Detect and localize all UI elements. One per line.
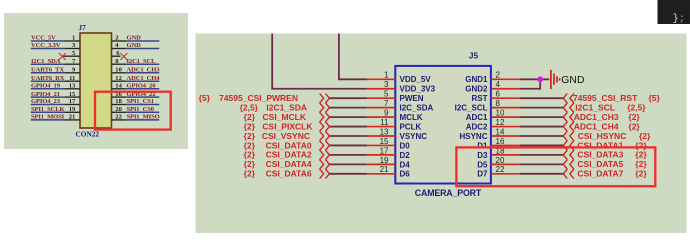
svg-text:{5}: {5} xyxy=(199,93,211,103)
svg-text:I2C1_SCL: I2C1_SCL xyxy=(127,58,157,65)
svg-text:VDD_3V3: VDD_3V3 xyxy=(400,85,436,94)
J5 pin 13 (VSYNC) xyxy=(367,127,427,141)
wire to J5 pin 18 net CSI_DATA3 xyxy=(520,154,563,156)
svg-text:SPI1_CS1: SPI1_CS1 xyxy=(127,98,154,105)
svg-text:I2C1_SDA: I2C1_SDA xyxy=(31,58,61,65)
svg-text:10: 10 xyxy=(115,67,122,74)
svg-text:8: 8 xyxy=(496,99,501,108)
svg-text:14: 14 xyxy=(115,83,122,90)
off-sheet chevron marker pin 6 xyxy=(563,94,574,103)
svg-text:GPIO4_20: GPIO4_20 xyxy=(127,83,157,90)
off-sheet chevron marker pin 16 xyxy=(563,141,574,150)
wire J7 pin 10 net ADC1_CH3 xyxy=(112,72,160,74)
wire to J5 pin 9 net CSI_MCLK xyxy=(330,116,367,118)
svg-text:GND: GND xyxy=(561,75,584,86)
svg-text:GND: GND xyxy=(127,35,142,42)
wire to J5 pin 16 net CSI_DATA1 xyxy=(520,144,563,146)
svg-text:VSYNC: VSYNC xyxy=(400,132,428,141)
off-sheet chevron marker pin 5 xyxy=(320,94,330,103)
wire to J5 pin 19 net CSI_DATA4 xyxy=(330,163,367,165)
svg-text:15: 15 xyxy=(380,137,389,146)
wire J7 pin 20 net SPI1_CS0 xyxy=(112,111,160,113)
wire to J5 pin 17 net CSI_DATA2 xyxy=(330,154,367,156)
net label ADC1_CH3 with sheet refs {2} xyxy=(574,112,641,122)
off-sheet chevron marker pin 17 xyxy=(320,150,330,159)
net label I2C1_SDA with sheet refs {2,5} xyxy=(240,102,307,112)
J5 pin 18 (D3) xyxy=(477,146,520,160)
net label CSI_DATA4 with sheet refs {2} xyxy=(244,159,312,169)
svg-text:D1: D1 xyxy=(477,141,488,150)
svg-text:D5: D5 xyxy=(477,160,488,169)
net label CSI_DATA6 with sheet refs {2} xyxy=(244,169,312,179)
svg-text:22: 22 xyxy=(496,165,505,174)
junction dot GND net xyxy=(537,76,543,82)
svg-text:1: 1 xyxy=(384,71,389,80)
svg-text:{2}: {2} xyxy=(635,169,647,179)
svg-text:19: 19 xyxy=(380,156,389,165)
J5 pin 19 (D4) xyxy=(367,156,410,170)
svg-text:GND1: GND1 xyxy=(465,75,488,84)
svg-text:{2}: {2} xyxy=(244,169,256,179)
wire J7 pin 6 stub xyxy=(112,55,121,57)
J5 pin 20 (D5) xyxy=(477,156,520,170)
net label CSI_DATA3 with sheet refs {2} xyxy=(577,150,647,160)
svg-text:15: 15 xyxy=(69,91,76,98)
svg-text:6: 6 xyxy=(496,90,501,99)
net label I2C1_SCL with sheet refs {2,5} xyxy=(575,102,646,112)
svg-text:ADC2: ADC2 xyxy=(466,122,488,131)
wire to J5 pin 13 net CSI_VSYNC xyxy=(330,135,367,137)
svg-text:17: 17 xyxy=(69,98,76,105)
net label CSI_DATA5 with sheet refs {2} xyxy=(577,159,647,169)
svg-text:RST: RST xyxy=(472,94,488,103)
no-ERC marker on J7 pin 5 xyxy=(59,53,66,60)
wire GND net pin 4 xyxy=(520,79,540,89)
wire J7 pin 22 net SPI1_MISO xyxy=(112,119,160,121)
svg-text:9: 9 xyxy=(384,109,389,118)
wire J7 pin 7 net I2C1_SDA xyxy=(31,63,80,65)
svg-text:13: 13 xyxy=(380,127,389,136)
svg-text:14: 14 xyxy=(496,127,505,136)
J5 pin 9 (MCLK) xyxy=(367,109,423,123)
off-sheet chevron marker pin 7 xyxy=(320,103,330,112)
J5 pin 8 (I2C_SCL) xyxy=(455,99,520,113)
svg-text:D0: D0 xyxy=(400,141,411,150)
svg-text:GPIO4_19: GPIO4_19 xyxy=(31,83,61,90)
svg-text:UART6_RX: UART6_RX xyxy=(31,75,65,82)
net label CSI_DATA1 with sheet refs {2} xyxy=(577,140,647,150)
J5 pin 1 (VDD_5V) xyxy=(367,71,431,85)
off-sheet chevron marker pin 14 xyxy=(563,131,574,140)
off-sheet chevron marker pin 15 xyxy=(320,141,330,150)
left schematic panel background xyxy=(4,13,188,149)
off-sheet chevron marker pin 18 xyxy=(563,150,574,159)
svg-text:GND: GND xyxy=(127,42,142,49)
power ground symbol GND xyxy=(551,70,560,89)
off-sheet chevron marker pin 10 xyxy=(563,112,574,121)
J5 pin 12 (ADC2) xyxy=(466,118,520,132)
svg-text:D2: D2 xyxy=(400,151,411,160)
net label 74595_CSI_RST with sheet refs {5} xyxy=(573,93,661,103)
svg-text:HSYNC: HSYNC xyxy=(459,132,487,141)
J5 pin 7 (I2C_SDA) xyxy=(367,99,434,113)
svg-text:19: 19 xyxy=(69,106,76,113)
svg-text:J7: J7 xyxy=(79,24,87,32)
svg-text:21: 21 xyxy=(69,114,76,121)
wire to J5 pin 12 net ADC1_CH4 xyxy=(520,126,563,128)
svg-text:UART6_TX: UART6_TX xyxy=(31,67,64,74)
svg-text:2: 2 xyxy=(496,71,501,80)
svg-text:VCC_3.3V: VCC_3.3V xyxy=(31,42,61,49)
J5 pin 6 (RST) xyxy=(472,90,520,104)
wire J7 pin 1 net VCC_5V xyxy=(31,40,80,42)
svg-text:17: 17 xyxy=(380,146,389,155)
J5 pin 2 (GND1) xyxy=(465,71,520,85)
wire GND net pin 2 xyxy=(520,78,549,80)
wire to J5 pin 6 net 74595_CSI_RST xyxy=(520,97,563,99)
svg-text:I2C_SDA: I2C_SDA xyxy=(400,104,434,113)
svg-text:12: 12 xyxy=(496,118,505,127)
off-sheet chevron marker pin 19 xyxy=(320,160,330,169)
net label CSI_DATA2 with sheet refs {2} xyxy=(244,150,312,160)
svg-text:GND2: GND2 xyxy=(465,85,488,94)
wire to J5 pin 10 net ADC1_CH3 xyxy=(520,116,563,118)
wire to J5 pin 8 net I2C1_SCL xyxy=(520,107,563,109)
wire to J5 pin 5 net 74595_CSI_PWREN xyxy=(330,97,367,99)
wire J7 pin 19 net SPI1_SCLK xyxy=(31,111,80,113)
net label CSI_PIXCLK with sheet refs {2} xyxy=(244,121,314,131)
svg-text:CON22: CON22 xyxy=(76,129,100,138)
svg-text:CAMERA_PORT: CAMERA_PORT xyxy=(415,188,482,198)
svg-text:PWEN: PWEN xyxy=(400,94,424,103)
svg-text:16: 16 xyxy=(496,137,505,146)
wire riser to J5 pin 1 xyxy=(338,34,367,80)
J5 pin 16 (D1) xyxy=(477,137,520,151)
wire J7 pin 18 net SPI1_CS1 xyxy=(112,104,160,106)
svg-text:1: 1 xyxy=(72,35,75,42)
svg-text:VDD_5V: VDD_5V xyxy=(400,75,432,84)
J5 pin 17 (D2) xyxy=(367,146,410,160)
svg-text:PCLK: PCLK xyxy=(400,122,422,131)
svg-text:VCC_5V: VCC_5V xyxy=(31,35,56,42)
J5 pin 22 (D7) xyxy=(477,165,520,179)
svg-text:GPIO4_23: GPIO4_23 xyxy=(31,98,61,105)
svg-text:ADC1_CH4: ADC1_CH4 xyxy=(127,75,161,82)
svg-text:5: 5 xyxy=(384,90,389,99)
net label CSI_DATA0 with sheet refs {2} xyxy=(244,140,312,150)
svg-text:D4: D4 xyxy=(400,160,411,169)
off-sheet chevron marker pin 21 xyxy=(320,169,330,178)
wire J7 pin 8 net I2C1_SCL xyxy=(112,63,160,65)
svg-text:D7: D7 xyxy=(477,170,488,179)
wire J7 pin 5 stub xyxy=(63,55,80,57)
net label CSI_VSYNC with sheet refs {2} xyxy=(244,131,310,141)
J5 pin 21 (D6) xyxy=(367,165,410,179)
wire J7 pin 3 net VCC_3.3V xyxy=(31,48,80,50)
net label CSI_MCLK with sheet refs {2} xyxy=(244,112,307,122)
svg-text:ADC1: ADC1 xyxy=(466,113,488,122)
wire J7 pin 9 net UART6_TX xyxy=(31,72,80,74)
wire J7 pin 13 net GPIO4_19 xyxy=(31,88,80,90)
J5 pin 10 (ADC1) xyxy=(466,109,520,123)
svg-text:ADC1_CH3: ADC1_CH3 xyxy=(127,67,161,74)
wire J7 pin 15 net GPIO4_21 xyxy=(31,96,80,98)
off-sheet chevron marker pin 12 xyxy=(563,122,574,131)
wire J7 pin 17 net GPIO4_23 xyxy=(31,104,80,106)
J5 pin 3 (VDD_3V3) xyxy=(367,80,436,94)
net label CSI_DATA7 with sheet refs {2} xyxy=(577,169,647,179)
svg-text:I2C_SCL: I2C_SCL xyxy=(455,104,488,113)
off-sheet chevron marker pin 11 xyxy=(320,122,330,131)
J5 pin 5 (PWEN) xyxy=(367,90,424,104)
connector J5 body xyxy=(395,66,491,184)
J5 pin 14 (HSYNC) xyxy=(459,127,519,141)
svg-text:CSI_DATA7: CSI_DATA7 xyxy=(577,169,623,179)
svg-text:D3: D3 xyxy=(477,151,488,160)
svg-text:{5}: {5} xyxy=(649,93,661,103)
svg-text:20: 20 xyxy=(115,106,122,113)
svg-text:22: 22 xyxy=(115,114,122,121)
svg-text:SPI1_MISO: SPI1_MISO xyxy=(127,114,160,121)
off-sheet chevron marker pin 20 xyxy=(563,160,574,169)
svg-text:13: 13 xyxy=(69,83,76,90)
svg-text:GPIO4_21: GPIO4_21 xyxy=(31,91,60,98)
wire riser to J5 pin 3 xyxy=(271,34,367,89)
red highlight box around SPI pins of J7 xyxy=(95,92,171,130)
svg-text:SPI1_MOSI: SPI1_MOSI xyxy=(31,114,65,121)
wire to J5 pin 11 net CSI_PIXCLK xyxy=(330,126,367,128)
off-sheet chevron marker pin 13 xyxy=(320,131,330,140)
svg-text:D6: D6 xyxy=(400,170,411,179)
wire to J5 pin 22 net CSI_DATA7 xyxy=(520,173,563,175)
net label CSI_HSYNC with sheet refs {2} xyxy=(578,131,651,141)
wire J7 pin 21 net SPI1_MOSI xyxy=(31,119,80,121)
no-ERC marker on J7 pin 6 xyxy=(120,53,127,60)
svg-text:4: 4 xyxy=(496,80,501,89)
wire to J5 pin 21 net CSI_DATA6 xyxy=(330,173,367,175)
right schematic panel background xyxy=(196,34,687,234)
svg-text:};: }; xyxy=(673,13,686,25)
net label 74595_CSI_PWREN with sheet refs {5} xyxy=(199,93,298,103)
wire J7 pin 11 net UART6_RX xyxy=(31,80,80,82)
svg-text:SPI1_CS0: SPI1_CS0 xyxy=(127,106,155,113)
wire to J5 pin 7 net I2C1_SDA xyxy=(330,107,367,109)
svg-text:CSI_DATA6: CSI_DATA6 xyxy=(266,169,312,179)
J5 pin 11 (PCLK) xyxy=(367,118,422,132)
svg-text:J5: J5 xyxy=(469,51,479,61)
net label ADC1_CH4 with sheet refs {2} xyxy=(574,121,641,131)
svg-text:MCLK: MCLK xyxy=(400,113,423,122)
red highlight box around CSI_DATA3/5/7 xyxy=(456,147,655,186)
off-sheet chevron marker pin 8 xyxy=(563,103,574,112)
svg-text:21: 21 xyxy=(380,165,389,174)
wire to J5 pin 14 net CSI_HSYNC xyxy=(520,135,563,137)
svg-text:11: 11 xyxy=(69,75,75,82)
J5 pin 4 (GND2) xyxy=(465,80,520,94)
off-sheet chevron marker pin 22 xyxy=(563,169,574,178)
wire J7 pin 2 net GND xyxy=(112,40,160,42)
svg-text:SPI1_SCLK: SPI1_SCLK xyxy=(31,106,65,113)
J5 pin 15 (D0) xyxy=(367,137,410,151)
svg-text:10: 10 xyxy=(496,109,505,118)
wire J7 pin 12 net ADC1_CH4 xyxy=(112,80,160,82)
svg-text:7: 7 xyxy=(384,99,389,108)
wire to J5 pin 15 net CSI_DATA0 xyxy=(330,144,367,146)
svg-text:12: 12 xyxy=(115,75,122,82)
wire J7 pin 16 net GPIO4_22 xyxy=(112,96,160,98)
connector J7 body xyxy=(80,33,112,128)
svg-text:3: 3 xyxy=(384,80,389,89)
svg-text:18: 18 xyxy=(115,98,122,105)
off-sheet chevron marker pin 9 xyxy=(320,112,330,121)
svg-text:11: 11 xyxy=(380,118,389,127)
wire J7 pin 14 net GPIO4_20 xyxy=(112,88,160,90)
wire to J5 pin 20 net CSI_DATA5 xyxy=(520,163,563,165)
svg-text:20: 20 xyxy=(496,156,505,165)
code editor overlay box xyxy=(658,0,690,25)
wire J7 pin 4 net GND xyxy=(112,48,160,50)
